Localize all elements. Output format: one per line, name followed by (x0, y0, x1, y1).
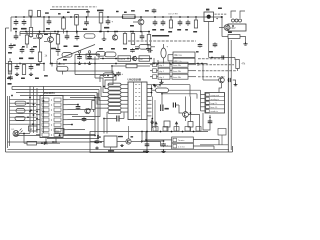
label R6 value (124, 12, 127, 14)
svg-text:o/p 1: o/p 1 (159, 77, 165, 79)
capacitor C22 (76, 105, 81, 110)
capacitor C33 (140, 34, 145, 40)
wire term1 lead (150, 64, 153, 66)
IC U1 center dots (51, 99, 52, 135)
resistor R17 (8, 64, 11, 74)
wire U1 out row4 (68, 114, 79, 116)
capacitor Ctr3 (178, 20, 183, 26)
wire +V top bus (11, 16, 207, 18)
connector J2 pin cell 2 (206, 97, 209, 100)
resistor RN3 body (108, 91, 121, 94)
wire P2 right (151, 46, 155, 48)
IC U2 inner columns (134, 82, 142, 120)
wire LED right (19, 133, 30, 135)
junction (107, 75, 109, 77)
capacitor C14 (87, 55, 92, 60)
label C9 value (8, 83, 12, 85)
svg-text:UA2010B: UA2010B (128, 78, 142, 82)
capacitor C19 (29, 64, 34, 70)
IC U1 right pin box 5 (54, 118, 61, 121)
arrow mark (141, 140, 144, 143)
wire right border end (232, 146, 234, 152)
junction (48, 16, 50, 18)
junction (148, 31, 150, 33)
junction (30, 16, 32, 18)
wire R26 top (148, 32, 150, 35)
capacitor C20 (116, 72, 121, 77)
wire bus join l (11, 87, 13, 90)
label freq (118, 136, 123, 137)
transistor Q9 (219, 77, 225, 83)
wire R15 right (240, 37, 246, 43)
resistor R15 (228, 35, 240, 39)
wire gnd lead (161, 79, 163, 80)
wire left border (5, 28, 7, 152)
capacitor C23 (82, 117, 87, 122)
IC U2 right pin 16 (147, 107, 152, 109)
wire Q4 emitter down (50, 48, 52, 64)
wire bottom outer border (6, 151, 233, 153)
resistor R14 body (86, 54, 99, 59)
wire driver A down (166, 127, 168, 132)
wire R24 left (24, 142, 27, 144)
resistor R22 body (15, 117, 25, 121)
label C3 value (83, 28, 87, 30)
wire bus nest 1 (57, 71, 113, 85)
wire term1 mid (157, 64, 173, 66)
capacitor Ctr1 (161, 20, 166, 26)
junction (197, 63, 199, 65)
capacitor C35 (173, 103, 175, 108)
junction (45, 141, 47, 143)
resistor R4 (75, 15, 79, 26)
junction (107, 16, 109, 18)
wire U2 right vertical (151, 85, 153, 97)
IC U2 body (128, 82, 147, 120)
capacitor CB1 body (153, 127, 158, 132)
wire matrix v1 (33, 87, 35, 133)
label value g (33, 46, 37, 48)
label C4 ref (116, 11, 119, 12)
junction (115, 58, 117, 60)
capacitor CB2 body (163, 127, 168, 132)
IC U1 left pin 7 (36, 129, 40, 131)
resistor R2 (37, 11, 40, 17)
arrow up b (175, 122, 177, 126)
junction (103, 86, 105, 88)
capacitor C34 (130, 48, 135, 52)
junction (43, 111, 45, 113)
label M1 tag (97, 136, 101, 137)
junction (54, 31, 56, 33)
label C27 value (165, 108, 169, 110)
wire U1 row 7 (10, 120, 37, 122)
capacitor CB3 body (174, 127, 179, 132)
resistor R12 (38, 52, 41, 62)
wire U1 out row5 (68, 119, 96, 121)
wire long bus 4 (20, 95, 95, 97)
wire K1 join (167, 55, 169, 61)
wire term3 lead (150, 76, 153, 78)
label value b (111, 48, 115, 50)
wire C36 top (48, 17, 50, 19)
wire R13 bottom (57, 44, 59, 49)
junction (150, 58, 152, 60)
wire P2 left (135, 46, 139, 48)
junction (94, 97, 96, 99)
wire term3 mid (157, 76, 173, 78)
resistor R26 (147, 35, 151, 46)
junction (66, 31, 68, 33)
junction (193, 131, 195, 133)
IC U1 right pin 2 (63, 104, 68, 106)
wire J3 lead1 (146, 139, 172, 141)
wire Q1 emitter (140, 25, 142, 32)
IC U2 left pin 3 (121, 92, 128, 94)
wire R10 top (9, 58, 11, 62)
diode D2 body (103, 73, 115, 78)
junction (127, 58, 129, 60)
wire mid row 2 (100, 58, 150, 60)
connector J2 pin cell 3 (206, 101, 209, 104)
wire right border outer (227, 38, 229, 152)
junction (107, 31, 109, 33)
label C4 value (104, 27, 109, 29)
wire B1 top (147, 45, 149, 48)
junction (76, 16, 78, 18)
connector J2 row 4 divider (205, 104, 225, 106)
capacitor C16 (213, 42, 218, 47)
IC U1 right pin 6 (63, 124, 68, 126)
wire bend (234, 58, 236, 61)
junction (100, 31, 102, 33)
wire term out c (188, 76, 196, 78)
capacitor C15 (161, 48, 166, 58)
label R18 value (21, 78, 25, 80)
label C16 value (209, 51, 213, 53)
wire left inner border 2 (9, 96, 11, 146)
label R17 value (7, 78, 11, 80)
transistor Q1 (138, 19, 144, 25)
resistor RN4 body (108, 95, 121, 98)
junction (153, 63, 155, 65)
wire Q1 collector (140, 17, 142, 19)
junction (170, 16, 172, 18)
wire R19 right (137, 65, 150, 67)
wire U1 row 5 (10, 113, 37, 115)
resistor Rtr5 (194, 20, 197, 28)
label mains top (218, 8, 222, 10)
junction (99, 31, 101, 33)
capacitor C13 (77, 55, 82, 60)
wire Rtr2 lead (170, 17, 172, 20)
IC U1 right pin 4 (63, 114, 68, 116)
junction (57, 31, 59, 33)
terminal row1 cell3 (172, 62, 188, 67)
wire left comp bus (6, 63, 45, 65)
wire R27 lead (30, 16, 32, 17)
IC U2 left pin 6 (121, 103, 128, 105)
resistor RN8 body (108, 110, 121, 113)
wire vertical right of Q8 (190, 97, 192, 122)
connector mains body (228, 24, 246, 31)
junction (51, 63, 53, 65)
wire Q1 base (133, 21, 138, 23)
module frame (90, 132, 147, 153)
junction (33, 104, 35, 106)
wire U1 bottom stub b (55, 138, 57, 143)
wire U1 bottom stub a (45, 138, 47, 143)
IC U1 right pin box 4 (54, 113, 61, 116)
wire Q3 collector (39, 32, 41, 34)
label C11 value (29, 58, 34, 60)
svg-text:fuse 2A: fuse 2A (173, 70, 181, 73)
junction (115, 63, 117, 65)
wire term2 lead (150, 70, 153, 72)
junction (157, 63, 159, 65)
ground G3 (243, 42, 247, 45)
connector J2 pin 1 lead (201, 94, 206, 96)
junction (11, 95, 13, 97)
trimmer T2 circle (88, 51, 90, 53)
wire drop to module b (106, 112, 108, 134)
left border tick (6, 27, 10, 29)
connector J2 pin 4 lead (201, 106, 206, 108)
wire bus nest 3 (95, 78, 108, 93)
resistor R10 (8, 62, 11, 72)
wire drop a (153, 58, 155, 64)
junction (15, 16, 17, 18)
junction (59, 135, 61, 137)
wire J3 out bend (218, 140, 220, 145)
switch S1 body (204, 12, 214, 22)
wire Rtr5 lead (195, 17, 197, 20)
capacitor C38 (95, 140, 100, 144)
wire bottom right bus (146, 131, 208, 133)
wire term2 mid (157, 70, 173, 72)
IC U1 left pin box 7 (42, 128, 49, 131)
label term row3 dashes (198, 64, 234, 66)
wire drop left (141, 132, 143, 142)
wire Q9 emitter (221, 83, 223, 88)
svg-text:RE 1 a: RE 1 a (175, 55, 183, 57)
wire driver B down (190, 127, 192, 132)
junction (89, 54, 91, 56)
wire D6 right (47, 142, 60, 144)
IC U1 left pin 1 (36, 99, 40, 101)
label S1 (215, 13, 228, 15)
wire C32 top (76, 32, 78, 35)
junction (153, 84, 155, 86)
label C5 ref (58, 13, 61, 14)
IC U1 left pin 4 (36, 114, 40, 116)
IC U1 left pin 5 (36, 119, 40, 121)
junction (201, 63, 203, 65)
svg-text:C6 C7 R9: C6 C7 R9 (168, 14, 178, 16)
wire to R20 (152, 89, 156, 91)
ground G13 (234, 83, 238, 86)
junction (162, 16, 164, 18)
wire Q7 top lead (128, 126, 130, 139)
junction (59, 63, 61, 65)
svg-text:1N4148: 1N4148 (58, 64, 66, 66)
junction (122, 16, 124, 18)
wire stub drop (87, 10, 89, 18)
junction (187, 16, 189, 18)
wire bus2 left (20, 33, 58, 35)
wire R20 down (161, 93, 163, 105)
IC U1 left pin box 1 (42, 98, 49, 101)
capacitor C10 (20, 47, 25, 53)
junction (145, 139, 147, 141)
junction (221, 16, 223, 18)
wire R25 top (132, 32, 134, 34)
wire Q8 emitter (185, 117, 187, 121)
wire C38 left (90, 141, 96, 143)
transformer T1 right bracket (240, 11, 245, 18)
wire U1 out row3 (68, 109, 91, 111)
junction (77, 104, 79, 106)
wire R10 bottom (9, 71, 11, 74)
IC U1 right pin 3 (63, 109, 68, 111)
resistor RN6 body (108, 103, 121, 106)
wire drop (19, 32, 21, 37)
junction (39, 31, 41, 33)
wire inner border right (200, 144, 228, 146)
wire R1 top lead (30, 17, 32, 28)
junction (29, 97, 31, 99)
resistor RN2 body (108, 87, 121, 90)
label R15 value (228, 32, 232, 34)
junction (41, 142, 43, 144)
junction (94, 135, 96, 137)
label C3 ref (86, 11, 90, 12)
wire vertical left b (154, 100, 156, 128)
wire R15 left lead (222, 36, 228, 38)
wire U1 out row6 (68, 124, 73, 126)
transformer T1 left bracket (231, 11, 236, 18)
label D1 value (63, 59, 67, 61)
wire bend down (200, 90, 202, 94)
resistor R3 (62, 18, 66, 29)
IC U2 left pin 7 (121, 107, 128, 109)
junction (43, 63, 45, 65)
wire J3 lead2 (161, 145, 172, 147)
capacitor C27 (161, 105, 163, 112)
wire U1 row 1 (10, 99, 37, 101)
junction (111, 65, 113, 67)
IC U2 left pin 4 (121, 95, 128, 97)
svg-text:PCF8574: PCF8574 (44, 92, 55, 95)
wire U1 out row2 (68, 104, 79, 106)
switch S3 body (55, 129, 64, 134)
label Q3 area value (44, 34, 48, 36)
junction (211, 57, 213, 59)
driver A body (164, 121, 170, 127)
connector J3 row1 (172, 137, 194, 143)
capacitor C36 (47, 19, 52, 25)
wire long bus 3 (16, 92, 97, 94)
wire Q4 base (44, 41, 48, 43)
resistor R18 (22, 65, 25, 75)
resistor R5 (99, 13, 103, 24)
wire M1 gnd lead (110, 147, 112, 153)
IC U1 right pin box 1 (54, 98, 61, 101)
wire loop right of U1 (70, 98, 100, 117)
polarity arrow (209, 116, 211, 118)
wire U1 out row7 (68, 129, 86, 131)
resistor R11 (25, 35, 28, 44)
junction (140, 31, 142, 33)
connector J2 pin 3 lead (201, 102, 206, 104)
potentiometer P2 body (139, 45, 151, 50)
junction (71, 124, 73, 126)
capacitor C18 (15, 64, 20, 70)
wire U1 out row1 (68, 99, 96, 101)
wire bus3 to RN5 (97, 93, 108, 105)
wire C31 top (66, 32, 68, 34)
junction (140, 16, 142, 18)
arrow up a (155, 122, 157, 126)
diode D7 body (57, 66, 69, 71)
ground G5 (29, 73, 33, 76)
wire U2 pin drop (146, 120, 148, 132)
junction (115, 75, 117, 77)
wire R4 bottom (76, 25, 78, 34)
IC U1 left pin box 8 (42, 133, 49, 136)
junction (146, 131, 148, 133)
resistor RN1 body (108, 83, 121, 86)
wire right border inner (230, 40, 232, 150)
label value (36, 64, 40, 66)
terminal row2 cell3 (172, 68, 188, 73)
label PW (206, 9, 209, 11)
wire Q9 base (203, 79, 219, 81)
terminal row1 cell1 (153, 63, 157, 67)
junction (151, 118, 153, 120)
crystal X1 body (105, 52, 117, 57)
wire Q10 collector (114, 32, 116, 35)
label annotation row3 (198, 58, 222, 60)
capacitor C3 (84, 20, 89, 26)
wire C28 up (123, 113, 125, 119)
polarity mark (216, 18, 218, 20)
junction (151, 88, 153, 90)
inductor L1 body (84, 34, 95, 38)
wire J3 out1 (193, 139, 219, 141)
junction (19, 63, 21, 65)
wire R11 top (26, 32, 28, 36)
wire U1 row 8 (10, 123, 37, 125)
terminal row3 cell3 (172, 74, 188, 79)
resistor R19 (126, 64, 137, 68)
wire C15 top (163, 44, 165, 48)
capacitor C29 (227, 78, 231, 82)
ground G7 (95, 147, 99, 150)
wire R3 top (63, 17, 65, 18)
wire J3 out2 (193, 145, 214, 147)
junction (161, 93, 163, 95)
LED D5 (13, 129, 23, 137)
connector J2 row 3 divider (205, 100, 225, 102)
wire C12 bottom (57, 53, 59, 56)
junction (89, 54, 91, 56)
transistor Q4 (48, 37, 54, 43)
IC U2 left pin 1 (121, 84, 128, 86)
wire R5 bottom (100, 23, 102, 32)
wire R7 top (124, 32, 126, 34)
label value a (99, 48, 103, 50)
